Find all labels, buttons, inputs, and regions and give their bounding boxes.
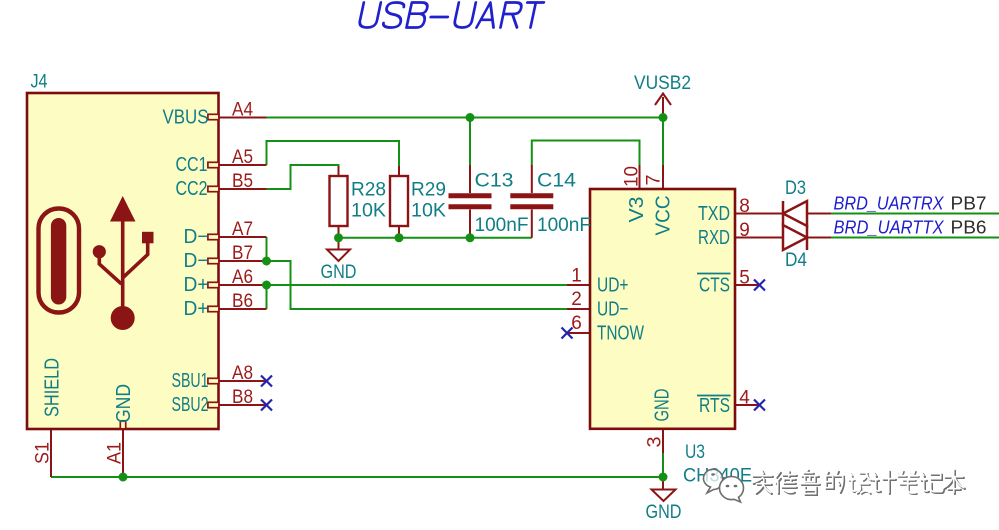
svg-text:VUSB2: VUSB2 <box>634 73 691 94</box>
svg-text:D+: D+ <box>184 298 209 320</box>
svg-text:7: 7 <box>644 175 665 186</box>
svg-text:B6: B6 <box>232 291 253 312</box>
svg-text:CC2: CC2 <box>176 178 208 200</box>
svg-text:1: 1 <box>571 266 582 287</box>
svg-text:U3: U3 <box>685 442 705 463</box>
svg-text:TXD: TXD <box>698 203 730 225</box>
svg-text:J4: J4 <box>31 72 48 93</box>
svg-text:A1: A1 <box>105 442 126 464</box>
svg-text:4: 4 <box>739 388 750 409</box>
svg-text:GND: GND <box>321 262 357 283</box>
svg-text:A7: A7 <box>232 219 253 240</box>
svg-text:GND: GND <box>652 389 674 422</box>
svg-text:5: 5 <box>739 268 750 289</box>
svg-text:10K: 10K <box>411 201 446 222</box>
svg-text:V3: V3 <box>626 197 648 223</box>
svg-text:UD+: UD+ <box>597 275 629 297</box>
svg-text:2: 2 <box>571 289 582 310</box>
svg-text:D−: D− <box>184 250 209 272</box>
svg-text:BRD_UARTTX: BRD_UARTTX <box>834 218 945 238</box>
svg-text:RTS: RTS <box>699 395 730 417</box>
svg-text:10: 10 <box>622 166 643 187</box>
svg-text:R29: R29 <box>411 180 446 201</box>
svg-text:SBU2: SBU2 <box>172 394 209 416</box>
svg-text:D3: D3 <box>785 178 806 199</box>
svg-text:A8: A8 <box>232 363 253 384</box>
svg-text:8: 8 <box>739 196 750 217</box>
svg-text:100nF: 100nF <box>475 215 529 236</box>
svg-text:SBU1: SBU1 <box>172 370 209 392</box>
svg-text:R28: R28 <box>351 180 386 201</box>
svg-text:GND: GND <box>113 384 135 423</box>
svg-text:A5: A5 <box>232 147 253 168</box>
svg-text:3: 3 <box>645 437 666 448</box>
svg-text:A6: A6 <box>232 267 253 288</box>
svg-text:10K: 10K <box>351 201 386 222</box>
svg-text:D+: D+ <box>184 274 209 296</box>
svg-text:GND: GND <box>646 502 682 523</box>
svg-text:VBUS: VBUS <box>163 107 209 129</box>
svg-text:PB6: PB6 <box>951 218 987 238</box>
svg-text:TNOW: TNOW <box>597 323 644 345</box>
svg-text:100nF: 100nF <box>537 215 591 236</box>
svg-text:UD−: UD− <box>597 299 629 321</box>
svg-text:VCC: VCC <box>653 196 675 236</box>
svg-text:A4: A4 <box>232 100 253 121</box>
svg-text:D4: D4 <box>785 250 807 271</box>
svg-text:PB7: PB7 <box>951 194 987 214</box>
svg-text:SHIELD: SHIELD <box>42 358 64 417</box>
svg-text:B7: B7 <box>232 243 253 264</box>
svg-text:RXD: RXD <box>698 227 730 249</box>
svg-text:C14: C14 <box>537 171 576 192</box>
svg-text:CTS: CTS <box>699 275 730 297</box>
svg-text:CC1: CC1 <box>176 154 208 176</box>
svg-text:6: 6 <box>571 313 582 334</box>
svg-text:BRD_UARTRX: BRD_UARTRX <box>834 194 945 214</box>
svg-text:D−: D− <box>184 226 209 248</box>
svg-text:C13: C13 <box>475 171 514 192</box>
svg-text:B5: B5 <box>232 171 253 192</box>
svg-text:B8: B8 <box>232 387 253 408</box>
svg-text:S1: S1 <box>33 442 54 464</box>
svg-text:9: 9 <box>739 220 750 241</box>
